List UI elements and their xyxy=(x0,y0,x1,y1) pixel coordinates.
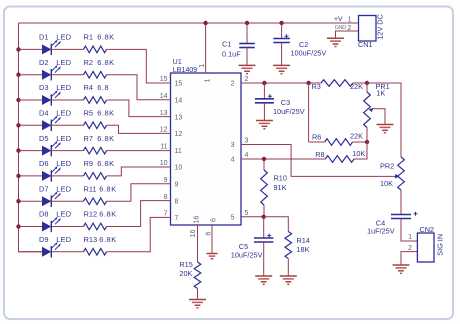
node junction R6/PR1/R8 xyxy=(365,140,369,144)
ground C2 xyxy=(273,64,290,66)
svg-text:6.8K: 6.8K xyxy=(99,184,116,193)
svg-text:12V DC: 12V DC xyxy=(375,14,384,40)
wire rail to D2 anode xyxy=(19,74,43,76)
svg-text:6: 6 xyxy=(205,231,212,235)
svg-text:LED: LED xyxy=(56,58,71,67)
node junction R10 top xyxy=(262,157,266,161)
svg-text:3: 3 xyxy=(245,138,249,145)
svg-text:CN1: CN1 xyxy=(358,40,373,49)
svg-text:R15: R15 xyxy=(179,260,192,269)
svg-text:6.8K: 6.8K xyxy=(97,58,114,67)
wire R9 to pin 10 xyxy=(107,167,171,176)
svg-text:14: 14 xyxy=(175,98,183,105)
svg-text:2: 2 xyxy=(231,81,235,88)
wire junction to C5 xyxy=(263,217,265,238)
wire R8 to R6 junction xyxy=(354,142,367,159)
wire PR1 wiper to ground xyxy=(369,108,374,112)
resistor R14 18K xyxy=(285,232,292,259)
svg-text:LED: LED xyxy=(56,184,71,193)
svg-text:4: 4 xyxy=(245,152,249,159)
svg-text:10uF/25V: 10uF/25V xyxy=(273,107,305,116)
svg-text:LED: LED xyxy=(56,134,71,143)
svg-text:R4: R4 xyxy=(84,83,93,92)
LED D6 xyxy=(42,166,61,182)
svg-text:2: 2 xyxy=(408,245,412,252)
wire CN1 pin 2 GND xyxy=(336,31,359,38)
svg-text:20K: 20K xyxy=(179,269,192,278)
svg-text:+V: +V xyxy=(334,16,343,23)
node junction rail row 7 xyxy=(16,199,20,203)
ground CN1 xyxy=(327,37,344,39)
svg-text:1K: 1K xyxy=(376,89,385,98)
wire rail to C1 xyxy=(246,23,248,44)
svg-text:7: 7 xyxy=(175,215,179,222)
LED D2 xyxy=(42,65,61,81)
resistor R10 91K xyxy=(263,159,265,170)
wire R1 to pin 15 xyxy=(107,49,171,83)
svg-text:9: 9 xyxy=(175,182,179,189)
svg-text:LED: LED xyxy=(56,83,71,92)
ground C3 xyxy=(256,120,273,122)
svg-text:LED: LED xyxy=(56,33,71,42)
wire rail to D9 anode xyxy=(19,251,43,253)
svg-text:9: 9 xyxy=(164,177,168,184)
wire R15 to ground xyxy=(197,289,199,300)
svg-text:12: 12 xyxy=(160,127,168,134)
svg-text:D1: D1 xyxy=(39,33,48,42)
svg-text:D7: D7 xyxy=(39,184,48,193)
capacitor C4 1uF xyxy=(391,214,411,216)
trimmer PR2 10K xyxy=(398,157,405,190)
svg-text:C1: C1 xyxy=(222,39,231,48)
svg-text:10K: 10K xyxy=(352,149,365,158)
resistor R2 xyxy=(84,71,107,78)
resistor R12 xyxy=(84,223,107,230)
svg-text:R3: R3 xyxy=(312,82,321,91)
IC U1 LB1409 body xyxy=(171,73,242,225)
wire D4 cathode to R5 xyxy=(51,124,83,126)
ground CN2 xyxy=(393,264,410,266)
wire left LED supply rail xyxy=(19,23,43,252)
LED D8 xyxy=(42,217,61,233)
node junction rail row 3 xyxy=(16,98,20,102)
wire D6 cathode to R9 xyxy=(51,175,83,177)
svg-text:1uF/25V: 1uF/25V xyxy=(367,227,395,236)
wire D5 cathode to R7 xyxy=(51,150,83,152)
wire R5 to pin 12 xyxy=(107,125,171,133)
svg-text:1: 1 xyxy=(205,79,212,83)
capacitor C3 10uF xyxy=(255,98,274,100)
svg-text:8: 8 xyxy=(175,198,179,205)
svg-text:R11: R11 xyxy=(84,184,97,193)
wire rail to D6 anode xyxy=(19,175,43,177)
wire R14 to ground xyxy=(287,259,289,276)
wire rail to D1 anode xyxy=(19,48,43,50)
trimmer PR1 1K xyxy=(366,83,368,92)
node junction rail row 5 xyxy=(16,148,20,152)
svg-text:LB1409: LB1409 xyxy=(173,65,197,74)
wire R2 to pin 14 xyxy=(107,75,171,100)
wire rail to C2 xyxy=(281,23,283,39)
wire C2 to ground xyxy=(281,42,283,65)
resistor R6 22K xyxy=(309,141,325,143)
capacitor C5 10uF xyxy=(254,237,274,239)
svg-text:8: 8 xyxy=(164,194,168,201)
capacitor C2 100uF xyxy=(273,38,290,40)
wire pin 4 to R8 xyxy=(241,158,325,160)
svg-text:3: 3 xyxy=(231,142,235,149)
svg-text:7: 7 xyxy=(164,211,168,218)
resistor R13 xyxy=(84,249,107,256)
LED D3 xyxy=(42,90,61,106)
svg-text:R7: R7 xyxy=(84,134,93,143)
svg-text:R1: R1 xyxy=(84,33,93,42)
wire C3 branch down xyxy=(263,83,265,99)
LED D7 xyxy=(42,191,61,207)
svg-text:2: 2 xyxy=(347,23,351,32)
wire pin 1 to +V rail xyxy=(205,23,207,73)
svg-text:D6: D6 xyxy=(39,159,48,168)
node junction rail row 4 xyxy=(16,123,20,127)
svg-text:16: 16 xyxy=(190,230,197,238)
LED D4 xyxy=(42,115,61,131)
resistor R11 xyxy=(84,198,107,205)
wire +V top rail xyxy=(19,22,359,24)
wire R11 to pin 9 xyxy=(107,184,171,201)
svg-text:D2: D2 xyxy=(39,58,48,67)
svg-text:D4: D4 xyxy=(39,109,48,118)
svg-text:D5: D5 xyxy=(39,134,48,143)
wire pin 5 to C5 and R14 xyxy=(241,216,264,218)
svg-text:LED: LED xyxy=(56,159,71,168)
ground C5 xyxy=(255,275,272,277)
node junction PR1 top xyxy=(365,81,369,85)
svg-text:12: 12 xyxy=(175,131,183,138)
svg-text:5: 5 xyxy=(245,210,249,217)
node junction rail row 6 xyxy=(16,174,20,178)
wire D7 cathode to R11 xyxy=(51,200,83,202)
svg-text:R13: R13 xyxy=(84,235,98,244)
wire R3/R6 vertical xyxy=(308,83,310,142)
node junction C2 rail xyxy=(279,21,283,25)
wire C5 to ground xyxy=(263,242,265,276)
svg-text:6.8K: 6.8K xyxy=(97,109,114,118)
svg-text:D8: D8 xyxy=(39,210,48,219)
wire R4 to pin 13 xyxy=(107,100,171,117)
svg-text:6.8K: 6.8K xyxy=(97,159,114,168)
wire pin 3 to PR2 wiper xyxy=(241,145,397,177)
svg-text:6.8K: 6.8K xyxy=(99,210,116,219)
wire CN2 pin 2 to ground xyxy=(401,252,417,265)
wire R3 to PR1 top xyxy=(353,82,367,84)
svg-text:10uF/25V: 10uF/25V xyxy=(231,250,263,259)
node junction rail row 1 xyxy=(16,47,20,51)
node junction R3/R6 branch xyxy=(306,81,310,85)
svg-text:6: 6 xyxy=(210,218,217,222)
svg-text:R6: R6 xyxy=(312,133,321,142)
ground R14 xyxy=(280,275,297,277)
wire C1 to ground xyxy=(246,47,248,65)
resistor R8 10K xyxy=(325,156,354,163)
wire R13 to pin 7 xyxy=(107,217,171,251)
svg-text:10: 10 xyxy=(160,160,168,167)
wire pin 2 to R3 xyxy=(241,82,321,84)
wire R12 to pin 8 xyxy=(107,201,171,227)
ground C1 xyxy=(239,64,256,66)
wire R7 to pin 11 xyxy=(107,150,171,152)
svg-text:6.8K: 6.8K xyxy=(99,235,116,244)
svg-text:LED: LED xyxy=(56,210,71,219)
svg-text:0.1uF: 0.1uF xyxy=(222,50,241,59)
svg-text:15: 15 xyxy=(160,76,168,83)
svg-text:R10: R10 xyxy=(274,173,287,182)
resistor R7 xyxy=(84,147,107,154)
svg-text:D3: D3 xyxy=(39,83,48,92)
svg-text:1: 1 xyxy=(199,64,206,68)
svg-text:14: 14 xyxy=(160,93,168,100)
svg-text:11: 11 xyxy=(160,144,167,151)
svg-text:LED: LED xyxy=(56,109,71,118)
resistor R1 xyxy=(84,46,107,53)
svg-text:22K: 22K xyxy=(350,132,363,141)
resistor R5 xyxy=(84,122,107,129)
node junction C1 rail xyxy=(245,21,249,25)
svg-text:16: 16 xyxy=(194,216,201,224)
wire rail to D8 anode xyxy=(19,226,43,228)
wire C4 to CN2 pin 1 xyxy=(401,218,417,241)
svg-text:15: 15 xyxy=(175,81,183,88)
resistor R4 xyxy=(84,97,107,104)
resistor R3 22K xyxy=(321,80,353,87)
svg-text:R14: R14 xyxy=(297,236,310,245)
svg-text:18K: 18K xyxy=(297,245,310,254)
ground pin 6 xyxy=(207,253,218,255)
wire R6 to junction xyxy=(353,141,368,143)
svg-text:R12: R12 xyxy=(84,210,98,219)
wire D1 cathode to R1 xyxy=(51,48,83,50)
wire D8 cathode to R12 xyxy=(51,226,83,228)
node junction rail row 2 xyxy=(16,73,20,77)
resistor R9 xyxy=(84,173,107,180)
svg-text:10K: 10K xyxy=(380,179,393,188)
svg-text:D9: D9 xyxy=(39,235,48,244)
LED D9 xyxy=(42,242,61,258)
svg-text:6.8K: 6.8K xyxy=(97,33,114,42)
wire rail to D5 anode xyxy=(19,150,43,152)
wire junction to R14 xyxy=(264,217,289,232)
node junction pin 5 xyxy=(262,215,266,219)
node junction pin1 rail xyxy=(203,21,207,25)
wire C3 to ground xyxy=(263,103,265,121)
ground R15 xyxy=(189,299,206,301)
svg-text:R2: R2 xyxy=(84,58,93,67)
wire PR2 to C4 xyxy=(400,190,402,215)
wire D3 cathode to R4 xyxy=(51,99,83,101)
svg-text:1: 1 xyxy=(408,234,412,241)
wire pin 6 to ground xyxy=(211,225,213,253)
svg-text:CN2: CN2 xyxy=(420,225,435,234)
svg-text:91K: 91K xyxy=(274,183,287,192)
svg-text:6.8K: 6.8K xyxy=(97,134,114,143)
wire rail to D7 anode xyxy=(19,200,43,202)
svg-text:10: 10 xyxy=(175,165,183,172)
connector CN1 body xyxy=(359,16,377,42)
wire D2 cathode to R2 xyxy=(51,74,83,76)
wire rail to D4 anode xyxy=(19,124,43,126)
ground PR1 wiper xyxy=(377,124,394,126)
capacitor C1 0.1uF xyxy=(239,43,255,45)
connector CN2 body xyxy=(417,233,434,262)
wire pin 16 down to R15 xyxy=(197,225,199,262)
svg-text:R5: R5 xyxy=(84,109,93,118)
svg-text:LED: LED xyxy=(56,235,71,244)
svg-text:13: 13 xyxy=(175,114,183,121)
wire rail to D3 anode xyxy=(19,99,43,101)
wire D9 cathode to R13 xyxy=(51,251,83,253)
svg-text:11: 11 xyxy=(175,148,182,155)
svg-text:5: 5 xyxy=(231,215,235,222)
wire PR1 top to PR2 top xyxy=(367,83,401,157)
svg-text:4: 4 xyxy=(231,157,235,164)
node junction rail row 8 xyxy=(16,224,20,228)
LED D5 xyxy=(42,141,61,157)
svg-text:13: 13 xyxy=(160,110,168,117)
svg-text:PR2: PR2 xyxy=(380,161,394,170)
svg-text:R8: R8 xyxy=(315,150,324,159)
svg-text:100uF/25V: 100uF/25V xyxy=(291,49,327,58)
svg-text:R9: R9 xyxy=(84,159,93,168)
svg-text:GND: GND xyxy=(335,25,347,31)
svg-text:2: 2 xyxy=(245,76,249,83)
LED D1 xyxy=(42,40,61,56)
node junction C3 branch xyxy=(262,81,266,85)
svg-text:6.8: 6.8 xyxy=(97,83,109,92)
svg-text:SIG IN: SIG IN xyxy=(436,234,445,256)
resistor R15 xyxy=(194,262,201,289)
